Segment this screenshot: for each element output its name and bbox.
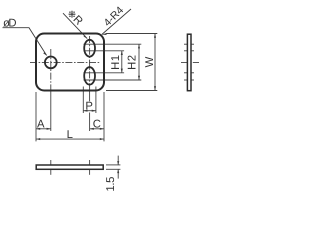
svg-text:L: L	[67, 129, 73, 141]
svg-text:H2: H2	[127, 55, 139, 70]
svg-text:W: W	[144, 56, 156, 67]
svg-text:1.5: 1.5	[105, 177, 117, 192]
svg-text:H1: H1	[110, 55, 122, 70]
svg-text:øD: øD	[3, 18, 17, 30]
svg-text:C: C	[93, 119, 101, 131]
svg-text:P: P	[85, 101, 93, 113]
svg-text:A: A	[37, 119, 45, 131]
